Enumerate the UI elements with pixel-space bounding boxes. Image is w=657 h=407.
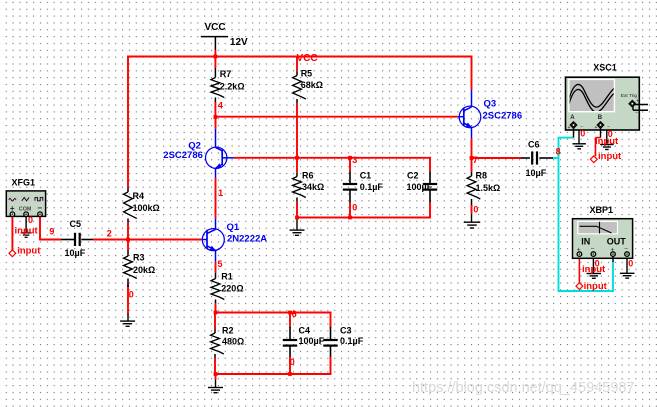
junction node 0 at R6 xyxy=(295,216,299,220)
svg-text:2: 2 xyxy=(107,228,112,238)
ground under R3 xyxy=(127,314,129,321)
svg-text:0: 0 xyxy=(608,129,613,139)
svg-text:2N2222A: 2N2222A xyxy=(227,233,267,244)
svg-text:C2: C2 xyxy=(407,170,419,180)
wire node 0 bottom of R6/C1/C2 xyxy=(296,217,431,219)
resistor R6 34kOhm xyxy=(296,173,298,177)
svg-text:20kΩ: 20kΩ xyxy=(133,265,155,275)
svg-text:B: B xyxy=(598,115,603,121)
wire XFG1 plus terminal to input connector xyxy=(11,216,13,250)
wire R2 branch xyxy=(214,312,216,329)
junction node 2 xyxy=(126,238,130,242)
ground under XBP1 OUT minus xyxy=(626,256,628,273)
svg-text:4: 4 xyxy=(218,101,223,111)
instrument XFG1 function generator xyxy=(6,191,45,217)
svg-text:68kΩ: 68kΩ xyxy=(301,80,323,90)
resistor R1 220Ohm xyxy=(215,273,217,279)
ground under oscilloscope A minus xyxy=(576,124,579,126)
svg-text:https://blog.csdn.net/qq_45945: https://blog.csdn.net/qq_45945987 xyxy=(412,380,635,396)
wire node 3 horizontal (Q2 base / R5 / R6 / C1 / C2) xyxy=(234,157,431,159)
svg-text:5: 5 xyxy=(218,259,223,269)
capacitor C3 0.1uF xyxy=(330,327,332,339)
svg-text:0: 0 xyxy=(580,128,585,138)
resistor R7 2.2kOhm xyxy=(214,68,216,78)
wire R5 branch (VCC to node 3) xyxy=(296,56,298,72)
svg-text:XSC1: XSC1 xyxy=(593,62,617,72)
svg-text:R8: R8 xyxy=(476,170,488,180)
svg-text:XFG1: XFG1 xyxy=(12,177,36,187)
junction node 0 at C4 xyxy=(288,372,292,376)
svg-text:100µF: 100µF xyxy=(299,336,325,346)
wire R7 branch (VCC to node 4) xyxy=(214,56,216,68)
wire R6 branch xyxy=(296,157,298,173)
svg-text:C6: C6 xyxy=(528,140,540,150)
svg-text:A: A xyxy=(570,115,575,121)
svg-text:6: 6 xyxy=(292,309,297,319)
svg-text:R4: R4 xyxy=(133,191,145,201)
capacitor C6 10uF xyxy=(521,157,530,159)
wire node 0 bottom horizontal (R2/C4/C3) xyxy=(214,373,331,375)
svg-text:220Ω: 220Ω xyxy=(221,283,243,293)
input connector diamond at XBP1 xyxy=(576,283,583,290)
ground under node 0 (R2 rail) xyxy=(215,380,217,388)
svg-text:C3: C3 xyxy=(340,325,352,335)
transistor Q1 2N2222A (base left) xyxy=(202,229,224,251)
svg-text:+: + xyxy=(636,99,639,105)
svg-text:100kΩ: 100kΩ xyxy=(133,203,160,213)
svg-text:−: − xyxy=(37,203,42,212)
svg-text:XBP1: XBP1 xyxy=(590,205,614,215)
svg-text:Q3: Q3 xyxy=(484,99,497,110)
ground under XFG1 COM xyxy=(25,216,27,233)
wire R1 bottom to node 6 xyxy=(215,303,217,313)
instrument XSC1 oscilloscope xyxy=(566,77,640,130)
capacitor C5 10uF xyxy=(61,239,74,241)
XBP1 IN+ terminal xyxy=(577,252,582,257)
wire node 4 horizontal (to Q3 base) xyxy=(215,116,458,118)
wire VCC top rail xyxy=(127,56,472,58)
svg-text:C4: C4 xyxy=(299,325,311,335)
resistor R3 20kOhm xyxy=(127,251,129,257)
junction at VCC stem xyxy=(214,55,218,59)
svg-text:7: 7 xyxy=(473,155,478,165)
svg-text:0: 0 xyxy=(28,215,33,225)
svg-text:2.2kΩ: 2.2kΩ xyxy=(220,81,245,91)
svg-text:−: − xyxy=(635,111,638,117)
wire node 6 top horizontal (R1/R2/C4/C3) xyxy=(215,312,332,314)
svg-text:VCC: VCC xyxy=(297,53,318,64)
wire XBP1 IN+ drop to input connector xyxy=(578,256,580,283)
resistor R2 480Ohm xyxy=(214,329,216,333)
svg-text:0: 0 xyxy=(473,204,478,214)
svg-text:C5: C5 xyxy=(70,219,82,229)
ground under R8 xyxy=(471,214,473,222)
wire cyan node 8 to oscilloscope A xyxy=(553,157,559,159)
svg-text:2SC2786: 2SC2786 xyxy=(163,150,203,161)
wire C2 branch xyxy=(429,157,431,171)
junction node 0 at C1 xyxy=(348,216,352,220)
svg-text:input: input xyxy=(584,281,608,292)
wire ground stub below node 0 xyxy=(215,373,217,380)
svg-text:1.5kΩ: 1.5kΩ xyxy=(476,183,501,193)
svg-text:1: 1 xyxy=(218,188,223,198)
svg-text:R1: R1 xyxy=(221,271,233,281)
svg-text:0: 0 xyxy=(352,203,357,213)
junction node 4 xyxy=(214,115,218,119)
wire left vertical (VCC rail to node 2) xyxy=(127,56,129,188)
svg-text:0.1µF: 0.1µF xyxy=(360,182,384,192)
svg-text:0: 0 xyxy=(595,258,600,268)
junction node 6 at C4 xyxy=(288,311,292,315)
wire node 7 horizontal to C6 xyxy=(471,157,521,159)
svg-text:+: + xyxy=(595,125,598,131)
wire R8 branch xyxy=(471,157,473,172)
junction node 7 xyxy=(470,156,474,160)
svg-text:+: + xyxy=(568,125,571,131)
wire C1 branch xyxy=(349,157,351,171)
input connector diamond at oscilloscope B xyxy=(590,156,597,163)
svg-text:10µF: 10µF xyxy=(65,248,86,258)
wire node 1 (Q2 emitter to Q1 collector) xyxy=(215,117,217,129)
svg-text:R2: R2 xyxy=(222,325,234,335)
power symbol VCC 12V xyxy=(201,36,228,38)
instrument XBP1 bode plotter xyxy=(573,219,633,259)
resistor R5 68kOhm xyxy=(296,71,298,75)
svg-text:input: input xyxy=(15,226,39,237)
capacitor C4 100uF xyxy=(289,327,291,339)
svg-text:R7: R7 xyxy=(220,69,232,79)
wire node 7 (Q3 emitter junction) xyxy=(471,138,473,159)
svg-text:480Ω: 480Ω xyxy=(222,336,244,346)
wire scope B input drop xyxy=(596,137,601,139)
svg-text:input: input xyxy=(17,246,41,257)
ground under R6 rail xyxy=(296,218,298,230)
resistor R4 100kOhm xyxy=(127,188,129,193)
svg-text:R6: R6 xyxy=(302,170,314,180)
input connector diamond at XFG1 xyxy=(9,250,16,257)
wire cyan node 8 to XBP1 OUT xyxy=(558,157,560,291)
junction node 3 at C1 xyxy=(348,156,352,160)
XBP1 IN- terminal xyxy=(591,252,596,257)
resistor R8 1.5kOhm xyxy=(471,172,473,176)
wire Q3 collector to VCC rail xyxy=(471,56,473,90)
wire C3 branch xyxy=(330,312,332,328)
svg-text:Q1: Q1 xyxy=(227,222,240,233)
junction node 0 at R2 xyxy=(214,372,218,376)
svg-text:2SC2786: 2SC2786 xyxy=(483,110,523,121)
oscilloscope Ext Trig terminal xyxy=(629,100,636,107)
svg-text:3: 3 xyxy=(352,155,357,165)
transistor Q2 2SC2786 (base right) xyxy=(206,147,227,168)
svg-text:0: 0 xyxy=(628,258,633,268)
svg-text:VCC: VCC xyxy=(205,22,226,33)
svg-text:R3: R3 xyxy=(133,253,145,263)
svg-text:R5: R5 xyxy=(301,69,313,79)
svg-text:0: 0 xyxy=(129,289,134,299)
ground under XBP1 IN minus xyxy=(592,256,594,273)
svg-text:input: input xyxy=(598,151,622,162)
svg-text:C1: C1 xyxy=(360,170,372,180)
XBP1 OUT- terminal xyxy=(625,252,630,257)
transistor Q3 2SC2786 (base left) xyxy=(459,106,481,128)
svg-text:IN: IN xyxy=(581,237,590,247)
wire node 5 (Q1 emitter to R1) xyxy=(215,262,217,273)
svg-text:12V: 12V xyxy=(230,37,248,48)
svg-text:0: 0 xyxy=(290,357,295,367)
wire XFG1 minus terminal drop xyxy=(39,216,41,241)
svg-text:34kΩ: 34kΩ xyxy=(302,182,324,192)
junction node 3 at R5/R6 xyxy=(295,156,299,160)
svg-text:9: 9 xyxy=(49,227,54,237)
ground under oscilloscope B minus xyxy=(603,124,607,126)
svg-text:0.1µF: 0.1µF xyxy=(340,336,364,346)
capacitor C1 0.1uF xyxy=(349,171,351,183)
junction node 6 at R1/R2 xyxy=(214,311,218,315)
wire R3 branch to ground xyxy=(127,239,129,251)
wire C4 branch xyxy=(289,312,291,328)
XBP1 OUT+ terminal xyxy=(611,252,616,257)
svg-text:8: 8 xyxy=(556,147,561,157)
svg-text:Ext Trig: Ext Trig xyxy=(621,93,638,99)
svg-text:10µF: 10µF xyxy=(526,168,547,178)
wire node 2 horizontal (XFG1 to Q1 base) xyxy=(40,239,61,241)
